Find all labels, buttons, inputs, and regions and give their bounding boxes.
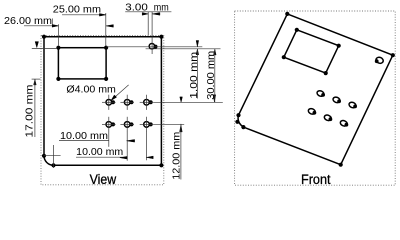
26.00 right arrow [106,25,114,28]
ext line x58.5 [58,24,60,45]
svg-text:10.00 mm: 10.00 mm [76,147,123,158]
dim 1.00 (vertical) [196,41,199,47]
dim 30.00 (vertical) [214,49,217,55]
view frame right [235,11,396,185]
svg-text:25.00 mm: 25.00 mm [53,5,101,16]
hole column extension lines down [108,132,110,147]
plate vertex dots [42,35,46,39]
26.00 left arrow [52,25,58,28]
svg-text:1.00 mm: 1.00 mm [189,52,200,99]
svg-text:Front: Front [301,172,331,187]
svg-text:Ø4.00 mm: Ø4.00 mm [66,84,116,95]
iso holes [307,90,357,127]
fillet center mark [44,145,61,168]
extension row1 line C [153,101,223,103]
svg-text:30.00 mm: 30.00 mm [206,51,217,100]
iso plate [238,14,393,165]
extension row2 line [153,123,184,125]
iso big circle [375,56,384,64]
dim 12.00 (vertical) [180,97,183,103]
circle vertical extension (3.00 dim) [151,12,153,54]
svg-text:26.00 mm: 26.00 mm [4,16,52,27]
plate outline [44,37,161,166]
holes 2x3 with center marks [102,95,153,132]
iso cutout [284,30,339,73]
extension line A (from cutout corner, y47.4) [106,46,202,48]
svg-text:View: View [90,172,117,187]
top-right circle hole [149,44,154,49]
view frame left [41,35,164,184]
dim 17.00 (vertical) [35,42,38,48]
rectangular cutout [58,48,106,79]
svg-text:12.00 mm: 12.00 mm [171,132,182,180]
ext line x105.8 [105,13,107,46]
svg-text:17.00 mm: 17.00 mm [25,85,36,138]
extension line B (y49.2) [146,48,221,50]
